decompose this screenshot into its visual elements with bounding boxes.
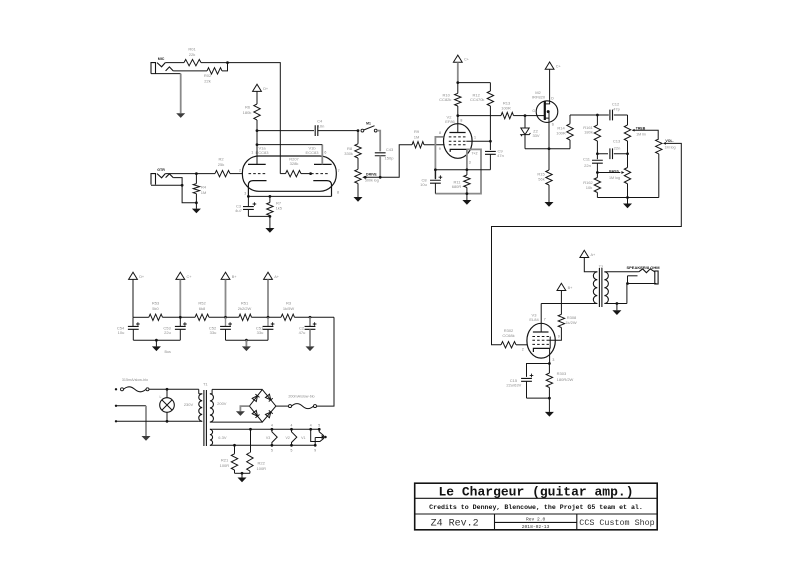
- triode V1b cathode pin 8: [313, 181, 331, 197]
- svg-text:22n: 22n: [614, 146, 621, 151]
- svg-text:25k: 25k: [218, 162, 224, 167]
- svg-text:3: 3: [244, 192, 246, 196]
- svg-text:7+2: 7+2: [471, 151, 477, 155]
- title block: [415, 483, 658, 530]
- potentiometer VOL 1M log: [656, 139, 662, 154]
- bridge rectifier diamond: [249, 390, 276, 423]
- resistor R53 5k0: [133, 316, 149, 318]
- fuse 200mA slow-blo: [276, 405, 289, 407]
- svg-text:A+: A+: [591, 253, 597, 257]
- ground cathode V1: [269, 216, 271, 228]
- resistor R01 22k: [184, 59, 201, 65]
- pentode V2 grid1 row: [449, 144, 467, 146]
- svg-text:2k2/2W: 2k2/2W: [238, 306, 252, 311]
- potentiometer DRIVE 500k log: [355, 169, 361, 183]
- jack MIC ring contact wire: [173, 70, 207, 72]
- pentode V2 cathode: [450, 149, 467, 152]
- wire mains live: [149, 388, 199, 390]
- svg-text:7: 7: [544, 318, 546, 322]
- bridge diode D3: [252, 410, 257, 416]
- svg-text:R9: R9: [414, 129, 420, 134]
- svg-text:6.3V: 6.3V: [218, 435, 227, 440]
- wire heater bottom rail: [212, 444, 315, 446]
- svg-text:ECC83: ECC83: [306, 150, 320, 155]
- wire R12 to screen node: [489, 106, 491, 141]
- triode V1a cathode pin 3: [248, 181, 266, 197]
- svg-text:150p: 150p: [385, 155, 395, 160]
- svg-text:ECC83: ECC83: [256, 150, 270, 155]
- svg-text:500k log: 500k log: [365, 178, 379, 182]
- svg-text:315mA/slow-blo: 315mA/slow-blo: [122, 378, 148, 382]
- svg-text:230V: 230V: [184, 402, 194, 407]
- switch M1: [361, 129, 364, 132]
- svg-text:D+: D+: [139, 275, 145, 279]
- wire R161 to C13 node: [596, 141, 598, 154]
- wire plate node to C4: [257, 130, 314, 132]
- capacitor C9 47n: [485, 151, 496, 154]
- wire plate rail to V1b: [257, 144, 322, 146]
- capacitor C3 4u7: [247, 196, 249, 206]
- resistor R6 180k: [254, 104, 260, 120]
- ground bridge negative: [240, 406, 249, 411]
- wire BASS wiper: [597, 172, 620, 174]
- svg-text:56k: 56k: [538, 177, 544, 182]
- svg-text:C11: C11: [583, 157, 591, 162]
- wire node A to V1b grid line (top run): [228, 63, 281, 174]
- wire C15 to R303 bottom: [527, 397, 550, 399]
- pentode V3 grid3 row: [532, 336, 549, 338]
- wire C52-C51 ground rail: [226, 339, 269, 341]
- svg-text:8: 8: [460, 119, 462, 123]
- capacitor C2 47u: [309, 317, 311, 326]
- svg-text:47p: 47p: [613, 106, 620, 111]
- svg-text:2018-02-13: 2018-02-13: [522, 524, 550, 530]
- svg-text:CCS Custom Shop: CCS Custom Shop: [579, 518, 654, 528]
- wire tone stack input rail: [570, 114, 609, 116]
- ground mains: [145, 406, 147, 436]
- svg-text:D+: D+: [263, 87, 269, 91]
- wire V3 screen to R308: [549, 328, 562, 341]
- svg-text:Rev 2.0: Rev 2.0: [526, 517, 546, 523]
- svg-text:T1: T1: [203, 382, 208, 387]
- svg-text:10n: 10n: [318, 123, 325, 128]
- svg-text:C+: C+: [556, 65, 562, 69]
- wire Z2 to source rail: [524, 135, 526, 149]
- svg-text:47u: 47u: [299, 330, 306, 335]
- svg-text:C+: C+: [464, 58, 470, 62]
- svg-text:VOL.: VOL.: [665, 139, 673, 143]
- svg-text:EL84: EL84: [529, 317, 539, 322]
- ground V2 cathode network: [466, 192, 469, 195]
- resistor R11 680R: [466, 170, 468, 175]
- wire V2 cathode rail: [435, 169, 490, 171]
- svg-text:V3: V3: [266, 436, 270, 440]
- ground GTR jack: [195, 203, 197, 209]
- tube V3 envelope (EL84): [527, 323, 555, 358]
- pentode V2 grid3 row: [449, 136, 467, 138]
- svg-text:22u/63V: 22u/63V: [506, 383, 521, 388]
- triode V1a plate: [248, 163, 266, 165]
- capacitor C4 10n: [315, 125, 318, 136]
- ground V3 cathode: [548, 398, 550, 412]
- ground T2 secondary: [616, 304, 618, 311]
- resistor R14 100R: [569, 140, 571, 149]
- capacitor C12 47p: [610, 110, 613, 121]
- svg-text:4: 4: [291, 423, 293, 427]
- capacitor C52 33u: [225, 317, 227, 326]
- power C+ arrow (filter): [176, 272, 185, 279]
- svg-text:8: 8: [439, 131, 441, 135]
- svg-text:R6: R6: [245, 105, 251, 110]
- svg-text:CC82k: CC82k: [439, 97, 451, 102]
- svg-text:B+: B+: [232, 275, 238, 279]
- svg-text:CC470k: CC470k: [470, 97, 484, 102]
- svg-text:3: 3: [469, 161, 471, 165]
- svg-text:680R: 680R: [452, 184, 462, 189]
- wire GTR tip to node B: [165, 173, 196, 175]
- svg-text:10u: 10u: [118, 330, 125, 335]
- wire D+ stem: [132, 279, 134, 317]
- jack GTR sleeve wire: [173, 178, 182, 186]
- wire R13 to M2 gate: [514, 115, 526, 117]
- wire cathode rail: [248, 195, 331, 197]
- wire C43 to wiper rail: [379, 156, 381, 178]
- heater V2: [292, 429, 297, 445]
- wire R302 to V3 grid pin 2: [516, 344, 527, 346]
- svg-text:1: 1: [251, 150, 253, 154]
- wire C+ to M2 drain: [549, 69, 551, 100]
- svg-text:8: 8: [337, 191, 339, 195]
- node A junction: [226, 61, 229, 64]
- capacitor C15 22u/63V: [527, 364, 550, 377]
- svg-text:100R: 100R: [257, 466, 267, 471]
- transformer T1 primary 230V: [198, 389, 200, 394]
- heater V3: [272, 429, 277, 445]
- svg-text:MIC: MIC: [158, 57, 165, 61]
- wire R9 to V2 grid pin 9: [424, 144, 445, 146]
- wire C54-C53 ground rail: [133, 339, 180, 341]
- capacitor C13 22n: [597, 153, 608, 155]
- transformer T2 primary: [593, 272, 597, 304]
- svg-text:1M: 1M: [201, 190, 207, 195]
- capacitor C11 22n: [596, 154, 598, 159]
- svg-text:BASS: BASS: [609, 170, 619, 174]
- svg-text:Z4 Rev.2: Z4 Rev.2: [431, 518, 479, 529]
- triode V1b grid: [311, 173, 328, 175]
- svg-text:2: 2: [239, 169, 241, 173]
- potentiometer BASS 1M log: [627, 154, 629, 168]
- power C+ arrow (V2 plate supply): [453, 55, 462, 62]
- wire R3 to rectifier node: [295, 316, 335, 318]
- wire T2 secondary bottom: [604, 303, 627, 305]
- wire A+ to T2 primary: [584, 258, 597, 272]
- ground tone stack: [627, 198, 629, 204]
- svg-text:33u: 33u: [257, 330, 264, 335]
- svg-text:9: 9: [439, 147, 441, 151]
- ground C52/C51: [245, 340, 247, 346]
- wire R01 to node A: [201, 62, 228, 64]
- svg-text:100R: 100R: [556, 131, 566, 136]
- svg-text:GTR: GTR: [157, 168, 165, 172]
- svg-text:200mA/slow-blo: 200mA/slow-blo: [288, 395, 314, 399]
- lamp L: [166, 389, 168, 397]
- svg-text:180R/2W: 180R/2W: [557, 377, 574, 382]
- svg-text:4u7: 4u7: [235, 208, 242, 213]
- wire C9 to cathode rail: [489, 154, 491, 169]
- svg-text:100R: 100R: [220, 463, 230, 468]
- wire V1b plate stub: [321, 145, 323, 165]
- transformer T1 heater winding 6.3V: [210, 429, 213, 445]
- svg-text:CC68k: CC68k: [502, 333, 514, 338]
- zener Z2 33V: [524, 116, 526, 128]
- svg-text:10k: 10k: [586, 185, 592, 190]
- svg-text:R01: R01: [188, 47, 196, 52]
- wire C+ to plate node: [457, 62, 459, 82]
- power A+ arrow: [580, 250, 589, 257]
- wire MIC tip to R01: [165, 62, 184, 64]
- resistor R12 CC470k: [489, 83, 491, 91]
- svg-text:200V: 200V: [217, 401, 227, 406]
- wire tone stack ground rail: [596, 193, 598, 198]
- svg-text:4: 4: [310, 423, 312, 427]
- wire B+ to R308: [560, 291, 562, 315]
- resistor R303 180R/2W: [548, 364, 550, 374]
- wire D+ to R6: [256, 91, 258, 104]
- pentode V3 cathode: [533, 348, 550, 352]
- svg-text:EF86: EF86: [445, 119, 455, 124]
- wire R8 to DRIVE: [357, 158, 359, 169]
- wire mains neutral to ground: [115, 405, 117, 407]
- wire source rail: [525, 148, 570, 150]
- wire mains bottom: [115, 420, 117, 422]
- wire R51 to A+: [252, 316, 282, 318]
- svg-text:33u: 33u: [210, 330, 217, 335]
- wire rectifier to filter: [317, 317, 335, 406]
- power D+ arrow (stage 1): [253, 84, 262, 91]
- resistor R4 1M: [195, 174, 197, 184]
- triode V1a grid: [249, 173, 267, 175]
- svg-text:1M log: 1M log: [609, 176, 620, 180]
- ground Bus: [155, 340, 157, 346]
- svg-text:47n: 47n: [497, 153, 504, 158]
- capacitor C51 33u: [267, 317, 269, 326]
- svg-text:V2: V2: [285, 436, 289, 440]
- wire V2 cathode down: [466, 149, 468, 169]
- node B junction: [195, 172, 198, 175]
- bridge diode D1: [252, 396, 257, 402]
- svg-text:10u: 10u: [420, 182, 427, 187]
- svg-text:6: 6: [324, 150, 326, 154]
- power C+ arrow (M2 drain): [545, 62, 554, 69]
- svg-text:T2: T2: [599, 264, 604, 269]
- resistor R3 1k/5W: [281, 314, 295, 320]
- svg-text:4: 4: [271, 423, 273, 427]
- svg-text:7: 7: [338, 169, 340, 173]
- wire V2 screen to R12/C9 node: [466, 140, 490, 142]
- resistor R308 1k/2W: [558, 314, 564, 327]
- svg-text:1M lin: 1M lin: [636, 133, 646, 137]
- pentode V3 plate: [533, 331, 549, 333]
- wire R52 to B+: [209, 316, 239, 318]
- wire V2 shield left: [435, 137, 443, 179]
- wire R53 to C+: [163, 316, 196, 318]
- transformer T1 core: [203, 390, 205, 446]
- resistor R21 100R: [234, 445, 236, 454]
- bridge diode D2: [265, 412, 270, 418]
- wire M2 source down: [548, 122, 550, 148]
- svg-text:9: 9: [558, 334, 560, 338]
- resistor R7 1k5: [269, 196, 271, 202]
- svg-text:1k5: 1k5: [276, 205, 283, 210]
- wire humdinger junction: [235, 472, 250, 474]
- svg-text:5: 5: [318, 423, 320, 427]
- pentode V2 plate: [449, 132, 465, 134]
- svg-text:C+: C+: [187, 275, 193, 279]
- jack MIC input: [151, 63, 156, 74]
- power A+ arrow (filter): [264, 272, 273, 279]
- svg-text:22u: 22u: [164, 330, 171, 335]
- resistor R22 100R: [250, 429, 252, 452]
- wire M1 to C43: [377, 131, 380, 152]
- wire C11 to BASS node: [596, 163, 598, 172]
- ground R15: [548, 185, 550, 202]
- wire TREB bottom to C13 node: [627, 141, 629, 154]
- svg-text:A+: A+: [274, 275, 280, 279]
- resistor R02 22k: [207, 68, 222, 74]
- wire A+ stem: [267, 279, 269, 317]
- svg-text:Credits to Denney, Blencowe, t: Credits to Denney, Blencowe, the Projet …: [429, 504, 643, 511]
- pentode V3 grid1 row: [532, 343, 549, 345]
- resistor R13 100R: [501, 112, 514, 118]
- wire R207 to V1b grid pin 7: [301, 173, 311, 175]
- svg-text:1: 1: [474, 136, 476, 140]
- potentiometer TREB 1M lin: [627, 115, 629, 125]
- bridge diode D4: [265, 394, 270, 400]
- triode V1b plate: [314, 163, 332, 165]
- wire plate to R13: [458, 115, 501, 117]
- svg-text:M1: M1: [366, 121, 371, 125]
- wire heater top rail: [212, 428, 319, 430]
- transformer T2 core: [598, 268, 600, 307]
- wire TREB wiper to VOL: [634, 130, 658, 139]
- wire secondary to bridge top: [212, 388, 262, 390]
- node below R4: [195, 194, 197, 203]
- transformer T2 secondary: [604, 272, 608, 304]
- fuse 315mA slow-blo: [115, 388, 117, 390]
- wire C3 to R7 bottom: [248, 215, 270, 217]
- svg-text:R02: R02: [204, 73, 212, 78]
- transformer T1 secondary 200V: [210, 394, 214, 422]
- svg-text:R2: R2: [218, 157, 224, 162]
- svg-text:R303: R303: [557, 371, 567, 376]
- resistor R15 56k: [548, 149, 550, 170]
- wire B+ stem: [225, 279, 227, 317]
- capacitor C8 10u: [434, 170, 436, 179]
- jack GTR input: [151, 174, 156, 185]
- capacitor C53 22u: [179, 317, 181, 326]
- mosfet M2 IRF820: [536, 101, 558, 123]
- svg-text:DRIVE: DRIVE: [366, 173, 377, 177]
- svg-text:Le Chargeur (guitar amp.): Le Chargeur (guitar amp.): [438, 484, 633, 499]
- svg-text:22n: 22n: [584, 163, 591, 168]
- svg-text:SPEAKER/8 OHM: SPEAKER/8 OHM: [626, 265, 660, 270]
- svg-text:6k8: 6k8: [199, 306, 206, 311]
- resistor R207 328k: [280, 173, 285, 175]
- wire R02 to node A: [222, 63, 228, 71]
- svg-text:100R: 100R: [501, 105, 511, 110]
- jack SPEAKER/8 OHM: [655, 271, 658, 284]
- ground heater center: [241, 473, 243, 477]
- wire C12 to TREB: [614, 114, 628, 116]
- svg-text:C43: C43: [386, 147, 394, 152]
- heater V1: [311, 429, 324, 441]
- tube V1 envelope (ECC83 dual triode): [242, 156, 336, 191]
- svg-text:180k: 180k: [584, 130, 593, 135]
- capacitor C54 10u: [132, 317, 134, 326]
- pentode V2 screen row: [449, 140, 467, 142]
- wire MIC sleeve to ground: [151, 73, 181, 75]
- wire R6 to plate node: [256, 120, 258, 131]
- svg-text:C13: C13: [613, 139, 621, 144]
- svg-text:R4: R4: [201, 185, 207, 190]
- wire V2 shield pins 7+2: [435, 149, 481, 193]
- svg-text:22k: 22k: [204, 78, 210, 83]
- ground MIC jack: [176, 113, 185, 118]
- svg-text:1M log: 1M log: [664, 146, 675, 150]
- svg-text:B+: B+: [568, 286, 574, 290]
- svg-text:9: 9: [314, 449, 316, 453]
- svg-text:22k: 22k: [189, 52, 195, 57]
- wire VOL wiper to output bus: [492, 143, 682, 344]
- ground DRIVE pot: [357, 184, 359, 198]
- resistor R10 CC82k: [457, 83, 459, 94]
- resistor R162 10k: [596, 173, 598, 178]
- wire speaker sleeve to secondary: [627, 276, 629, 284]
- svg-text:33V: 33V: [532, 133, 539, 138]
- wire T2 secondary top to jack: [604, 271, 638, 273]
- power D+ arrow (filter): [129, 272, 138, 279]
- svg-text:3: 3: [552, 358, 554, 362]
- wire R2 to V1a grid pin 2: [230, 173, 243, 175]
- power B+ arrow (filter): [221, 272, 230, 279]
- pentode V3 screen row: [532, 339, 549, 341]
- resistor R9 1M: [412, 142, 424, 148]
- wire C+ node to R12: [458, 82, 491, 84]
- wire V3 cathode down: [549, 348, 551, 363]
- resistor R2 25k: [215, 170, 230, 176]
- svg-text:328k: 328k: [290, 161, 299, 166]
- ground C2: [309, 329, 311, 346]
- resistor R161 180k: [596, 115, 598, 125]
- resistor R52 6k8: [195, 314, 209, 320]
- svg-text:1k/5W: 1k/5W: [283, 306, 295, 311]
- svg-text:1M: 1M: [414, 135, 420, 140]
- resistor R8 330k: [357, 131, 359, 144]
- svg-text:180k: 180k: [243, 110, 252, 115]
- wire node B to R2: [196, 173, 215, 175]
- tube V2 envelope (EF86 pentode): [444, 124, 473, 159]
- wire DRIVE wiper rail: [365, 145, 412, 178]
- power B+ arrow: [557, 283, 566, 290]
- svg-text:2: 2: [522, 347, 524, 351]
- svg-text:5: 5: [291, 449, 293, 453]
- wire C+ stem: [179, 279, 181, 317]
- svg-text:IRF820: IRF820: [532, 94, 546, 99]
- svg-text:5k0: 5k0: [152, 306, 159, 311]
- svg-text:Bus: Bus: [165, 350, 172, 354]
- svg-text:L: L: [160, 395, 162, 399]
- resistor R51 2k2/2W: [239, 314, 252, 320]
